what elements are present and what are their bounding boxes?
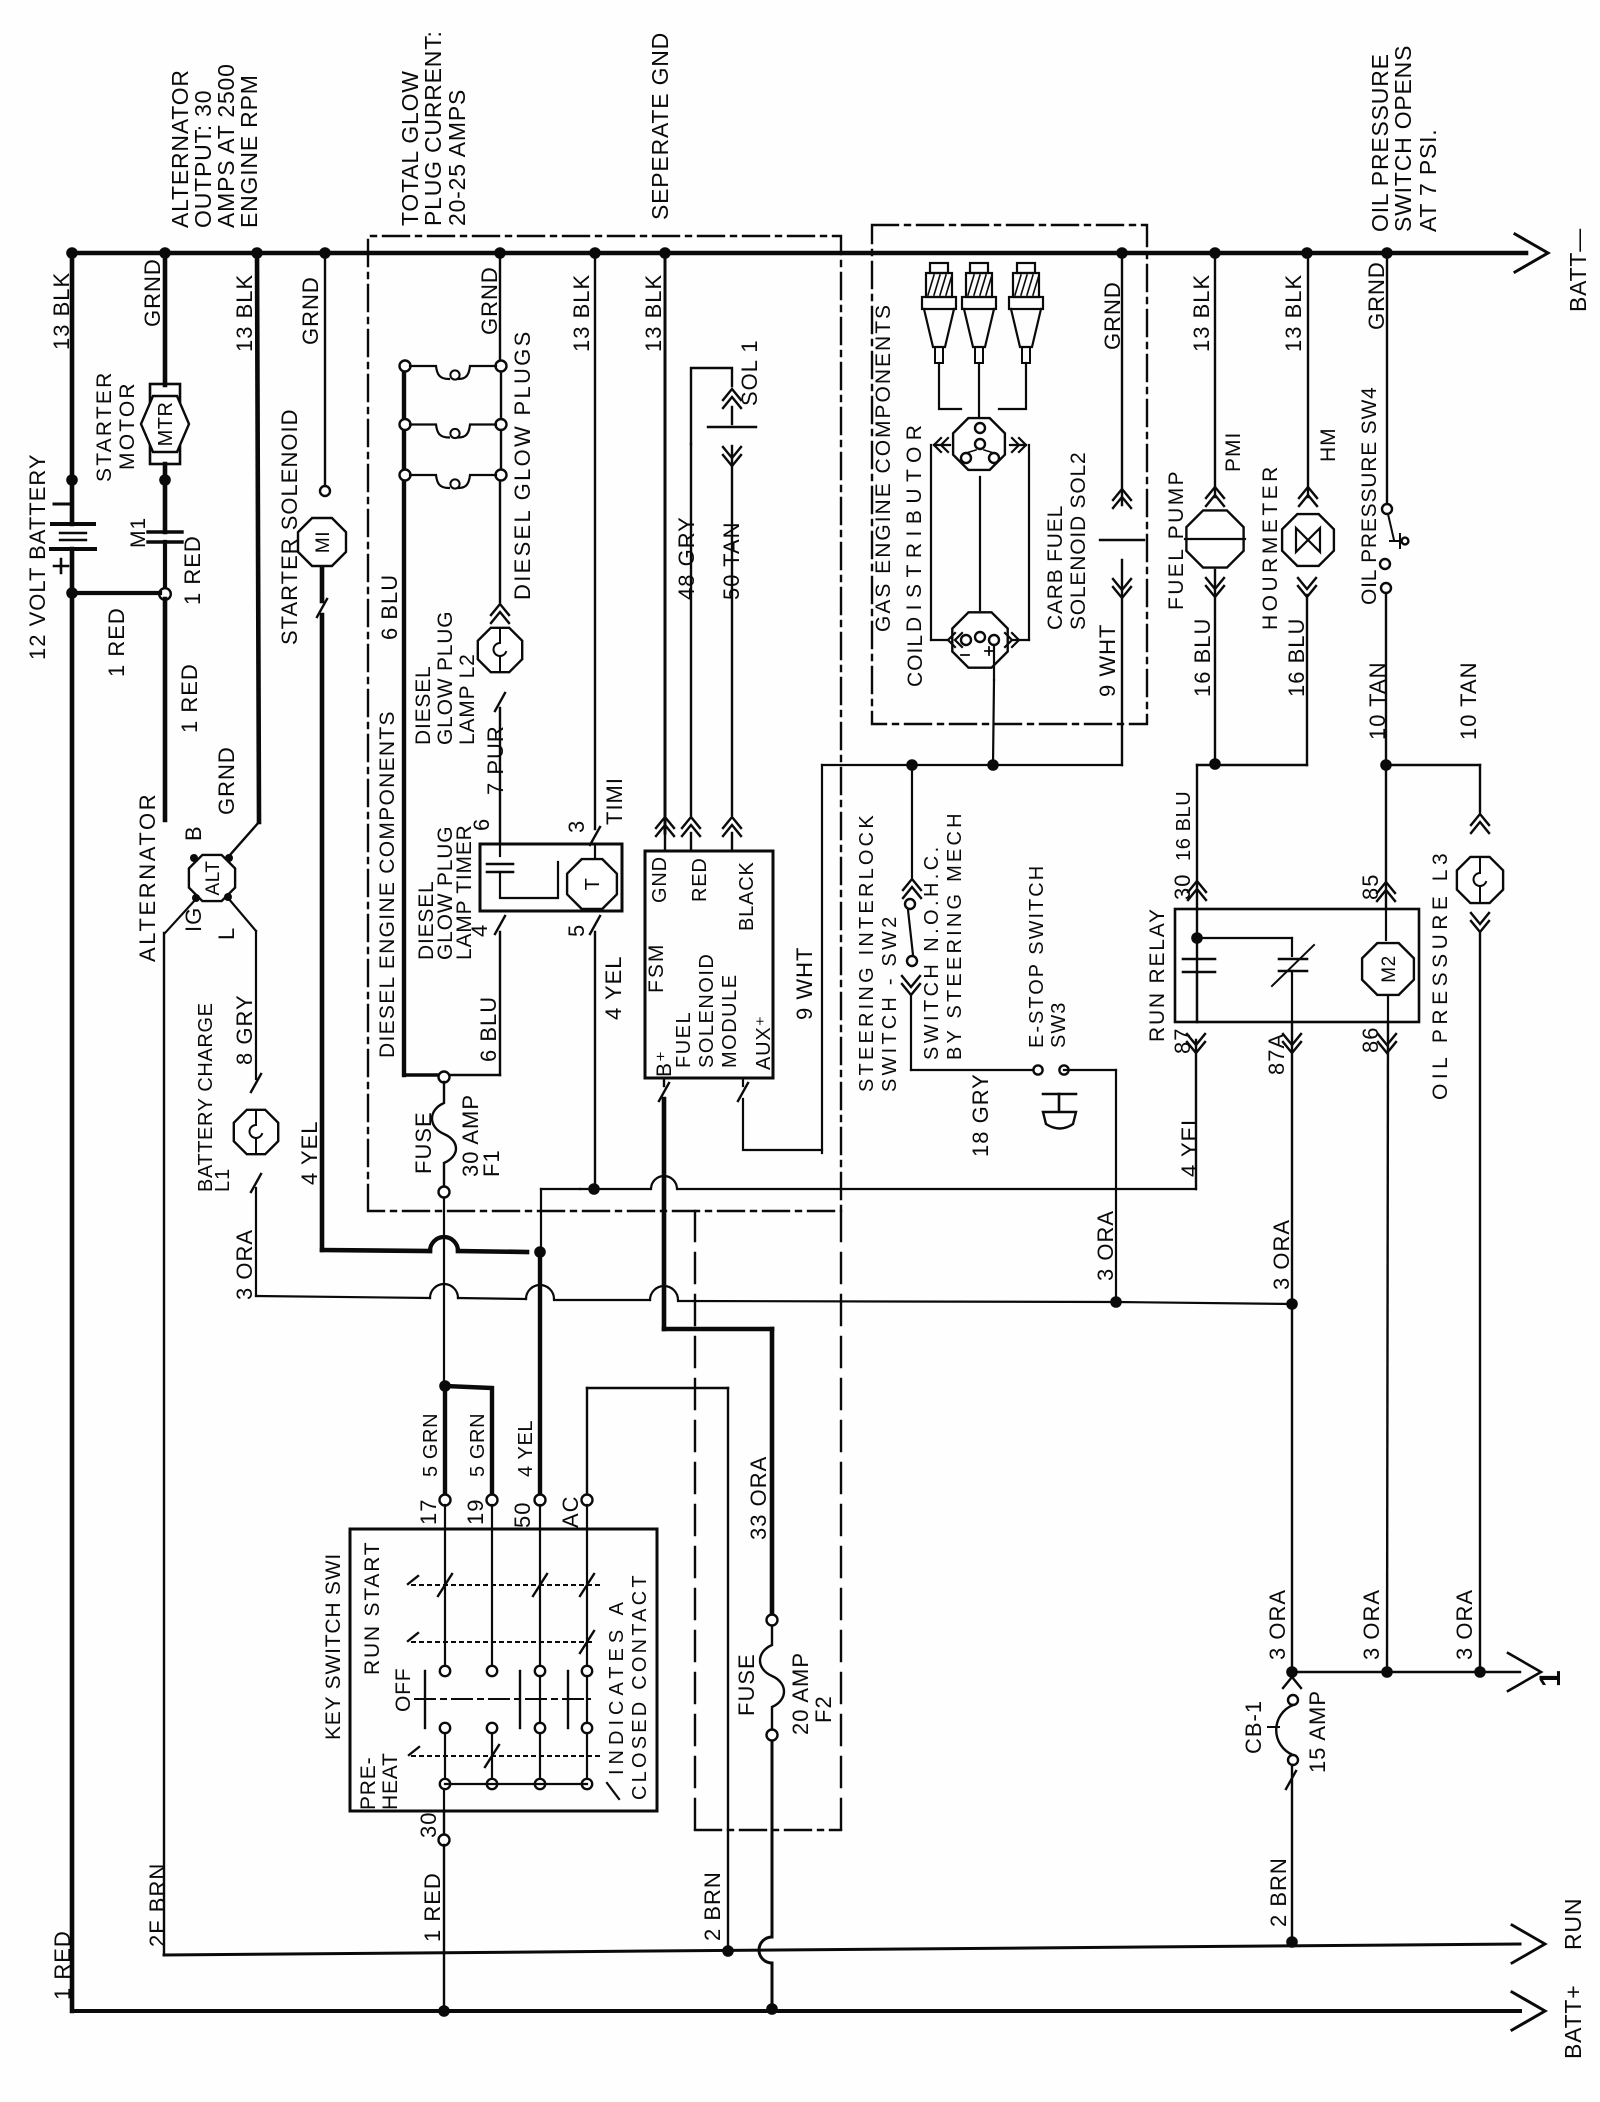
svg-text:85: 85 [1358, 874, 1383, 900]
svg-text:18 GRY: 18 GRY [968, 1073, 993, 1157]
svg-text:1: 1 [1534, 1670, 1567, 1687]
svg-text:2F BRN: 2F BRN [145, 1863, 170, 1947]
svg-text:15 AMP: 15 AMP [1305, 1690, 1330, 1773]
svg-text:17: 17 [416, 1499, 441, 1525]
svg-text:5 GRN: 5 GRN [467, 1413, 489, 1477]
svg-text:30: 30 [1170, 874, 1195, 900]
svg-text:9 WHT: 9 WHT [792, 947, 817, 1020]
svg-text:6 BLU: 6 BLU [476, 996, 501, 1062]
svg-text:13 BLK: 13 BLK [1281, 274, 1306, 352]
svg-text:COIL: COIL [904, 634, 927, 687]
svg-text:3: 3 [564, 820, 589, 833]
svg-text:FUEL PUMP: FUEL PUMP [1165, 469, 1188, 610]
svg-text:BATT—: BATT— [1565, 228, 1591, 312]
svg-text:LAMP TIMER: LAMP TIMER [453, 824, 476, 960]
svg-text:87A: 87A [1264, 1033, 1289, 1075]
svg-text:16 BLU: 16 BLU [1284, 618, 1309, 697]
svg-text:13 BLK: 13 BLK [232, 274, 257, 352]
svg-text:FUSE: FUSE [411, 1111, 436, 1174]
svg-text:RED: RED [689, 857, 711, 902]
svg-text:6 BLU: 6 BLU [377, 574, 402, 640]
svg-text:AT 7 PSI.: AT 7 PSI. [1415, 128, 1441, 232]
svg-text:RUN START: RUN START [361, 1541, 384, 1675]
svg-text:87: 87 [1170, 1028, 1195, 1054]
svg-text:OIL PRESSURE SW4: OIL PRESSURE SW4 [1358, 386, 1381, 605]
svg-text:RUN RELAY: RUN RELAY [1146, 907, 1169, 1042]
svg-text:SWITCH N.O.H.C.: SWITCH N.O.H.C. [921, 843, 943, 1060]
svg-text:4 YEL: 4 YEL [1177, 1112, 1202, 1177]
svg-text:4 YEL: 4 YEL [601, 955, 626, 1020]
svg-text:30: 30 [416, 1812, 441, 1838]
svg-text:AUX⁺: AUX⁺ [753, 1015, 775, 1070]
svg-text:13 BLK: 13 BLK [49, 272, 74, 350]
svg-text:GLOW PLUG: GLOW PLUG [434, 611, 457, 745]
svg-text:GRND: GRND [477, 266, 502, 335]
svg-text:BLACK: BLACK [736, 861, 758, 931]
svg-text:2 BRN: 2 BRN [700, 1871, 725, 1941]
svg-text:2 BRN: 2 BRN [1266, 1857, 1291, 1927]
svg-text:16 BLU: 16 BLU [1173, 791, 1195, 861]
svg-text:HEAT: HEAT [379, 1752, 402, 1810]
svg-text:HOURMETER: HOURMETER [1259, 463, 1282, 630]
svg-text:M2: M2 [1379, 955, 1400, 982]
svg-text:3 ORA: 3 ORA [232, 1229, 257, 1300]
svg-text:HM: HM [1317, 427, 1340, 462]
svg-text:GRND: GRND [1100, 281, 1125, 350]
svg-text:SEPERATE GND: SEPERATE GND [647, 32, 673, 220]
svg-text:13 BLK: 13 BLK [1189, 274, 1214, 352]
svg-text:50: 50 [510, 1502, 535, 1528]
svg-text:CLOSED CONTACT: CLOSED CONTACT [629, 1572, 651, 1800]
svg-text:F1: F1 [479, 1149, 504, 1177]
svg-text:PRE-: PRE- [357, 1757, 380, 1810]
svg-text:PMI: PMI [1222, 432, 1245, 472]
svg-text:3 ORA: 3 ORA [1093, 1210, 1118, 1281]
svg-text:1 RED: 1 RED [104, 607, 129, 677]
svg-text:SOLENOID: SOLENOID [696, 953, 718, 1068]
svg-text:8 GRY: 8 GRY [232, 994, 257, 1065]
svg-text:13 BLK: 13 BLK [569, 274, 594, 352]
svg-text:50 TAN: 50 TAN [719, 521, 744, 600]
svg-text:LAMP L2: LAMP L2 [456, 653, 479, 745]
svg-text:MOTOR: MOTOR [116, 381, 139, 470]
svg-text:GRND: GRND [214, 746, 239, 815]
svg-text:10 TAN: 10 TAN [1456, 661, 1481, 740]
svg-text:GND: GND [649, 856, 671, 903]
svg-text:SOL 1: SOL 1 [737, 339, 762, 406]
svg-text:1 RED: 1 RED [50, 1930, 75, 2000]
svg-text:M1: M1 [127, 517, 150, 548]
svg-text:PLUG CURRENT:: PLUG CURRENT: [420, 30, 446, 226]
svg-text:KEY SWITCH SWI: KEY SWITCH SWI [322, 1553, 345, 1740]
svg-text:STARTER: STARTER [93, 371, 116, 482]
svg-text:DIESEL: DIESEL [412, 666, 435, 746]
svg-text:SWITCH - SW2: SWITCH - SW2 [879, 914, 901, 1092]
svg-text:OIL PRESSURE L3: OIL PRESSURE L3 [1429, 849, 1452, 1100]
svg-text:3 ORA: 3 ORA [1269, 1219, 1294, 1290]
svg-text:IG: IG [181, 907, 206, 932]
svg-text:4 YEL: 4 YEL [515, 1420, 537, 1477]
svg-text:OFF: OFF [392, 1668, 415, 1712]
svg-text:4 YEL: 4 YEL [297, 1120, 322, 1185]
svg-text:5 GRN: 5 GRN [420, 1413, 442, 1477]
svg-text:10 TAN: 10 TAN [1365, 661, 1390, 740]
svg-text:9 WHT: 9 WHT [1095, 624, 1120, 697]
svg-text:SOLENOID SOL2: SOLENOID SOL2 [1067, 452, 1090, 630]
svg-text:DISTRIBUTOR: DISTRIBUTOR [903, 419, 926, 632]
svg-text:SW3: SW3 [1048, 1002, 1070, 1048]
svg-text:B: B [181, 825, 206, 841]
svg-text:5: 5 [564, 924, 589, 937]
svg-text:ALT: ALT [203, 861, 224, 896]
svg-text:BATTERY CHARGE: BATTERY CHARGE [195, 1002, 217, 1192]
svg-text:ALTERNATOR: ALTERNATOR [135, 792, 160, 962]
svg-text:E-STOP SWITCH: E-STOP SWITCH [1026, 864, 1048, 1048]
svg-text:3 ORA: 3 ORA [1359, 1589, 1384, 1660]
svg-text:33 ORA: 33 ORA [746, 1456, 771, 1540]
svg-text:MTR: MTR [155, 402, 177, 447]
svg-text:F2: F2 [811, 1695, 836, 1723]
svg-text:DIESEL ENGINE COMPONENTS: DIESEL ENGINE COMPONENTS [376, 710, 399, 1058]
svg-text:TIMI: TIMI [602, 777, 627, 825]
svg-text:FUSE: FUSE [734, 1653, 759, 1716]
svg-text:4: 4 [467, 924, 492, 937]
svg-text:ENGINE RPM: ENGINE RPM [236, 74, 262, 228]
svg-text:GRND: GRND [1364, 261, 1389, 330]
svg-text:B⁺: B⁺ [653, 1050, 676, 1077]
svg-text:CB-1: CB-1 [1241, 1700, 1266, 1754]
svg-text:3 ORA: 3 ORA [1452, 1589, 1477, 1660]
svg-text:19: 19 [463, 1499, 488, 1525]
svg-text:16 BLU: 16 BLU [1190, 618, 1215, 697]
svg-text:20 AMP: 20 AMP [788, 1652, 813, 1735]
svg-text:1 RED: 1 RED [180, 535, 205, 605]
svg-text:AC: AC [558, 1495, 583, 1528]
svg-text:86: 86 [1358, 1027, 1383, 1053]
svg-text:DIESEL GLOW PLUGS: DIESEL GLOW PLUGS [510, 329, 535, 600]
svg-text:1 RED: 1 RED [177, 663, 202, 733]
svg-text:48 GRY: 48 GRY [674, 516, 699, 600]
svg-text:MI: MI [313, 531, 334, 553]
svg-text:1 RED: 1 RED [420, 1872, 445, 1942]
svg-text:SWITCH OPENS: SWITCH OPENS [1390, 45, 1416, 232]
svg-text:RUN: RUN [1560, 1898, 1586, 1950]
svg-text:MODULE: MODULE [719, 973, 741, 1068]
svg-text:CARB FUEL: CARB FUEL [1044, 505, 1067, 630]
svg-text:7 PUR: 7 PUR [483, 725, 508, 795]
svg-text:GAS ENGINE COMPONENTS: GAS ENGINE COMPONENTS [872, 303, 895, 632]
svg-text:FSM: FSM [645, 943, 668, 993]
svg-text:20-25 AMPS: 20-25 AMPS [444, 89, 470, 226]
svg-text:12 VOLT BATTERY: 12 VOLT BATTERY [25, 453, 50, 660]
svg-text:3 ORA: 3 ORA [1265, 1589, 1290, 1660]
svg-text:BATT+: BATT+ [1560, 1984, 1586, 2059]
svg-text:STARTER SOLENOID: STARTER SOLENOID [277, 409, 302, 645]
svg-text:BY STEERING MECH: BY STEERING MECH [944, 810, 966, 1060]
svg-text:13 BLK: 13 BLK [641, 274, 666, 352]
svg-text:STEERING INTERLOCK: STEERING INTERLOCK [856, 812, 878, 1092]
svg-text:L1: L1 [212, 1168, 234, 1192]
svg-text:GRND: GRND [140, 258, 165, 327]
svg-text:L: L [214, 927, 239, 940]
svg-text:T: T [582, 878, 604, 891]
svg-text:INDICATES A: INDICATES A [606, 1597, 628, 1775]
svg-text:GRND: GRND [298, 276, 323, 345]
svg-text:FUEL: FUEL [673, 1011, 695, 1068]
